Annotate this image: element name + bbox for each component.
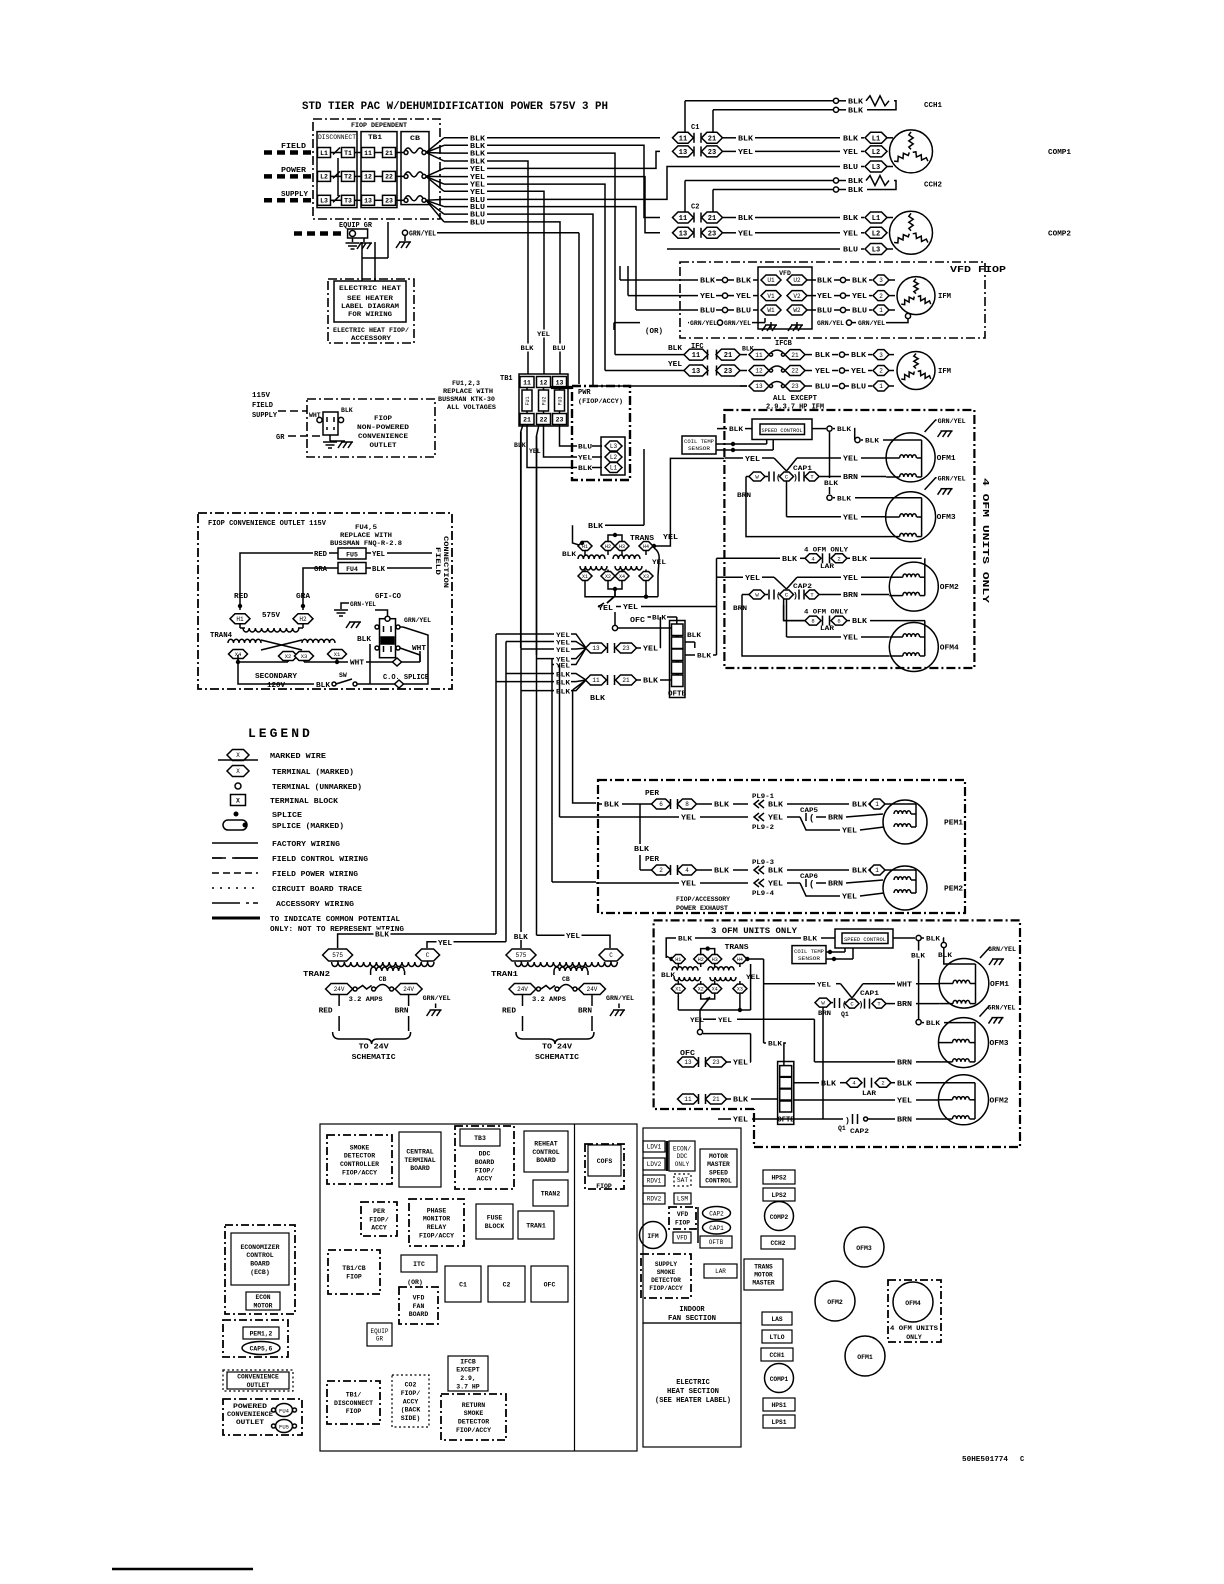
svg-text:CONVENIENCE: CONVENIENCE — [227, 1411, 273, 1418]
svg-text:4 OFM UNITS ONLY: 4 OFM UNITS ONLY — [980, 478, 990, 604]
svg-text:13: 13 — [592, 645, 600, 652]
svg-text:L1: L1 — [320, 150, 328, 157]
svg-text:LDV2: LDV2 — [647, 1161, 662, 1168]
svg-text:FIELD: FIELD — [252, 402, 273, 410]
svg-text:BLK: BLK — [848, 187, 864, 195]
svg-text:H1: H1 — [675, 957, 681, 963]
svg-text:ONLY: ONLY — [906, 1334, 922, 1341]
svg-text:BRN: BRN — [897, 1060, 912, 1068]
svg-text:YEL: YEL — [681, 881, 696, 889]
svg-text:LSM: LSM — [677, 1196, 689, 1203]
svg-text:FIOP: FIOP — [675, 1219, 690, 1226]
svg-text:YEL: YEL — [690, 1017, 704, 1025]
svg-text:CAP1: CAP1 — [709, 1225, 724, 1232]
svg-text:23: 23 — [385, 198, 393, 205]
svg-text:1: 1 — [879, 383, 883, 390]
svg-text:BRN: BRN — [828, 881, 843, 889]
svg-text:POWERED: POWERED — [233, 1403, 267, 1410]
svg-text:H3: H3 — [619, 544, 625, 550]
svg-text:BLK: BLK — [821, 1080, 837, 1088]
svg-text:OFM3: OFM3 — [856, 1245, 872, 1252]
svg-text:YEL: YEL — [733, 1117, 748, 1125]
svg-text:SMOKE: SMOKE — [350, 1144, 370, 1151]
svg-text:GRN/YEL: GRN/YEL — [938, 476, 966, 483]
svg-text:BLK: BLK — [652, 615, 667, 623]
svg-text:3: 3 — [879, 352, 883, 359]
svg-text:575: 575 — [516, 952, 527, 959]
svg-text:MARKED WIRE: MARKED WIRE — [270, 753, 327, 761]
svg-text:CONNECTION: CONNECTION — [442, 536, 449, 589]
svg-text:L2: L2 — [872, 149, 880, 157]
svg-text:YEL: YEL — [700, 293, 715, 301]
svg-text:TERMINAL BLOCK: TERMINAL BLOCK — [270, 798, 339, 806]
svg-text:PER: PER — [645, 856, 660, 864]
svg-text:FIOP DEPENDENT: FIOP DEPENDENT — [351, 122, 407, 129]
svg-text:FIELD POWER WIRING: FIELD POWER WIRING — [272, 871, 359, 879]
svg-text:FAN SECTION: FAN SECTION — [668, 1315, 716, 1323]
svg-text:(SEE HEATER LABEL): (SEE HEATER LABEL) — [655, 1397, 731, 1405]
svg-text:SW: SW — [339, 672, 347, 679]
svg-text:X2: X2 — [605, 574, 611, 580]
svg-text:CCH2: CCH2 — [770, 1240, 785, 1247]
svg-text:FIOP/: FIOP/ — [401, 1390, 421, 1397]
svg-text:GRN/YEL: GRN/YEL — [404, 617, 431, 624]
svg-text:YEL: YEL — [566, 933, 580, 941]
svg-text:FIELD CONTROL WIRING: FIELD CONTROL WIRING — [272, 856, 369, 864]
svg-text:YEL: YEL — [668, 361, 682, 369]
svg-text:1: 1 — [875, 867, 879, 874]
svg-text:DETECTOR: DETECTOR — [651, 1277, 681, 1284]
svg-text:11: 11 — [364, 150, 372, 157]
svg-text:BRN: BRN — [395, 1008, 409, 1016]
svg-text:W2: W2 — [793, 307, 801, 314]
svg-text:2: 2 — [879, 368, 883, 375]
svg-text:POWER EXHAUST: POWER EXHAUST — [676, 905, 728, 912]
svg-text:BLK: BLK — [729, 426, 744, 434]
svg-text:FIELD: FIELD — [434, 547, 441, 576]
svg-text:BLK: BLK — [372, 566, 386, 574]
svg-text:VFD: VFD — [779, 270, 791, 277]
svg-text:FIOP: FIOP — [374, 415, 392, 422]
svg-text:X3: X3 — [643, 574, 649, 580]
svg-text:CCH1: CCH1 — [924, 102, 942, 110]
svg-text:TRAN1: TRAN1 — [526, 1222, 546, 1229]
svg-text:21: 21 — [712, 1096, 720, 1103]
svg-text:23: 23 — [556, 416, 564, 423]
svg-text:GRA: GRA — [314, 566, 328, 574]
svg-text:BLK: BLK — [852, 556, 868, 564]
svg-text:YEL: YEL — [470, 189, 485, 197]
svg-text:V1: V1 — [767, 293, 775, 300]
svg-text:CCH1: CCH1 — [769, 1352, 784, 1359]
svg-text:BLK: BLK — [938, 952, 953, 960]
svg-text:23: 23 — [724, 368, 732, 376]
svg-text:BRN: BRN — [843, 592, 858, 600]
svg-text:YEL: YEL — [817, 293, 832, 301]
svg-text:BLK: BLK — [852, 802, 868, 810]
svg-text:YEL: YEL — [537, 331, 550, 338]
svg-text:BLU: BLU — [470, 212, 485, 220]
svg-text:BLK: BLK — [588, 523, 604, 531]
svg-text:OFC: OFC — [630, 617, 645, 625]
svg-text:120V: 120V — [267, 682, 286, 690]
svg-text:21: 21 — [385, 150, 393, 157]
svg-text:YEL: YEL — [529, 448, 541, 455]
svg-text:X: X — [236, 797, 240, 804]
svg-text:GRN/YEL: GRN/YEL — [690, 320, 717, 327]
svg-text:GR: GR — [376, 1336, 384, 1343]
svg-text:FU4,5: FU4,5 — [355, 524, 377, 532]
svg-text:BLK: BLK — [661, 972, 675, 979]
svg-text:YEL: YEL — [681, 815, 696, 823]
svg-text:BOARD: BOARD — [475, 1159, 495, 1166]
svg-text:X: X — [236, 752, 240, 759]
svg-text:FIOP/ACCY: FIOP/ACCY — [456, 1427, 491, 1434]
svg-text:BLK: BLK — [926, 936, 941, 944]
svg-text:L1: L1 — [872, 215, 880, 223]
svg-text:22: 22 — [540, 416, 548, 423]
svg-text:SPLICE: SPLICE — [272, 812, 303, 820]
svg-text:LEGEND: LEGEND — [248, 726, 313, 741]
svg-text:TERMINAL (MARKED): TERMINAL (MARKED) — [272, 769, 354, 777]
svg-text:BRN: BRN — [897, 1001, 912, 1009]
svg-text:X2: X2 — [285, 653, 292, 660]
svg-text:BLK: BLK — [700, 278, 716, 286]
svg-text:2: 2 — [837, 555, 840, 562]
svg-text:BLK: BLK — [815, 352, 831, 360]
svg-text:PL9-4: PL9-4 — [752, 890, 774, 897]
svg-text:SPLICE (MARKED): SPLICE (MARKED) — [272, 823, 344, 831]
svg-text:11: 11 — [684, 1096, 692, 1103]
svg-text:21: 21 — [622, 677, 630, 684]
svg-text:YEL: YEL — [718, 1017, 732, 1025]
svg-text:(: ( — [809, 880, 814, 890]
svg-text:X3: X3 — [301, 653, 308, 660]
svg-text:BLK: BLK — [852, 278, 868, 286]
svg-text:REPLACE WITH: REPLACE WITH — [340, 532, 392, 540]
svg-text:YEL: YEL — [817, 981, 831, 989]
svg-text:COIL TEMP: COIL TEMP — [794, 949, 824, 955]
svg-text:BUSSMAN KTK-30: BUSSMAN KTK-30 — [438, 396, 495, 403]
svg-text:MOTOR: MOTOR — [254, 1302, 273, 1309]
svg-text:24V: 24V — [587, 986, 598, 993]
svg-text:TO 24V: TO 24V — [359, 1044, 390, 1052]
svg-text:BUSSMAN FNQ-R-2.8: BUSSMAN FNQ-R-2.8 — [330, 540, 402, 548]
svg-text:BLK: BLK — [316, 682, 331, 690]
svg-text:ECON: ECON — [255, 1294, 270, 1301]
svg-text:BLK: BLK — [843, 215, 859, 223]
svg-text:BLK: BLK — [556, 688, 570, 695]
svg-text:CB: CB — [562, 976, 570, 983]
svg-text:EQUIP: EQUIP — [370, 1328, 388, 1335]
svg-text:YEL: YEL — [842, 828, 857, 836]
svg-text:FACTORY WIRING: FACTORY WIRING — [272, 841, 341, 849]
svg-text:RED: RED — [234, 593, 248, 601]
svg-text:TRANS: TRANS — [630, 535, 654, 543]
svg-text:C: C — [609, 952, 613, 959]
svg-text:C2: C2 — [503, 1281, 511, 1288]
svg-text:YEL: YEL — [556, 632, 570, 639]
svg-text:): ) — [793, 592, 798, 601]
svg-text:NON-POWERED: NON-POWERED — [357, 424, 409, 431]
svg-text:YEL: YEL — [598, 605, 613, 613]
svg-text:4 OFM UNITS: 4 OFM UNITS — [890, 1325, 938, 1332]
svg-text:PWR: PWR — [578, 389, 591, 397]
svg-text:H2: H2 — [698, 957, 704, 963]
svg-text:SAT: SAT — [677, 1177, 689, 1184]
svg-text:(BACK: (BACK — [401, 1407, 421, 1414]
svg-text:YEL: YEL — [556, 639, 570, 646]
svg-text:BLK: BLK — [843, 135, 859, 143]
svg-text:SECONDARY: SECONDARY — [255, 673, 298, 681]
svg-text:IFM: IFM — [938, 293, 951, 301]
svg-text:L2: L2 — [610, 454, 618, 461]
svg-text:3.2 AMPS: 3.2 AMPS — [532, 996, 566, 1003]
svg-text:8: 8 — [811, 618, 814, 625]
svg-text:MOTOR: MOTOR — [709, 1153, 728, 1160]
svg-text:BLU: BLU — [578, 444, 592, 451]
svg-text:13: 13 — [755, 383, 763, 390]
svg-text:WHT: WHT — [350, 660, 364, 668]
svg-text:YEL: YEL — [768, 881, 783, 889]
svg-text:YEL: YEL — [843, 230, 858, 238]
svg-text:RDV1: RDV1 — [647, 1178, 662, 1185]
svg-text:REPLACE WITH: REPLACE WITH — [443, 388, 493, 395]
svg-text:50HE501774: 50HE501774 — [962, 1456, 1008, 1464]
svg-text:6: 6 — [837, 618, 840, 625]
svg-text:OFM2: OFM2 — [990, 1097, 1009, 1105]
svg-text:X4: X4 — [712, 986, 718, 992]
svg-text:OFTB: OFTB — [668, 691, 687, 699]
svg-text:FIOP/: FIOP/ — [475, 1167, 495, 1174]
svg-text:EXCEPT: EXCEPT — [456, 1367, 480, 1374]
svg-text:CONTROLLER: CONTROLLER — [340, 1161, 379, 1168]
svg-text:DISCONNECT: DISCONNECT — [318, 134, 356, 141]
svg-text:BLU: BLU — [852, 308, 867, 316]
svg-text:YEL: YEL — [643, 646, 658, 654]
svg-text:GRN/YEL: GRN/YEL — [988, 1005, 1016, 1012]
svg-text:BRN: BRN — [897, 1117, 912, 1125]
svg-text:GRN/YEL: GRN/YEL — [817, 320, 844, 327]
svg-text:TB1: TB1 — [500, 375, 513, 383]
svg-text:11: 11 — [692, 352, 700, 360]
svg-text:Q1: Q1 — [838, 1125, 846, 1132]
svg-text:ACCESSORY WIRING: ACCESSORY WIRING — [276, 901, 355, 909]
svg-text:W1: W1 — [767, 307, 775, 314]
svg-text:CENTRAL: CENTRAL — [406, 1149, 433, 1156]
svg-text:11: 11 — [679, 135, 687, 143]
svg-text:(OR): (OR) — [407, 1279, 423, 1286]
svg-text:YEL: YEL — [897, 1097, 912, 1105]
svg-text:BLK: BLK — [768, 868, 784, 876]
svg-text:FU3: FU3 — [558, 396, 564, 405]
svg-text:OUTLET: OUTLET — [236, 1419, 264, 1426]
svg-text:FU4: FU4 — [279, 1408, 290, 1415]
svg-text:2: 2 — [659, 867, 663, 874]
svg-text:13: 13 — [692, 368, 700, 376]
svg-text:GRN/YEL: GRN/YEL — [724, 320, 751, 327]
svg-text:11: 11 — [679, 215, 687, 223]
svg-text:GRN/YEL: GRN/YEL — [858, 320, 885, 327]
svg-text:FIELD: FIELD — [281, 143, 306, 151]
svg-text:4: 4 — [685, 867, 689, 874]
svg-text:RED: RED — [319, 1008, 333, 1016]
svg-text:BLK: BLK — [714, 802, 730, 810]
svg-text:GRN/YEL: GRN/YEL — [409, 230, 436, 238]
svg-text:C.O. SPLICE: C.O. SPLICE — [383, 674, 429, 682]
svg-text:YEL: YEL — [768, 815, 783, 823]
svg-text:GRN/YEL: GRN/YEL — [606, 995, 634, 1002]
svg-text:TO INDICATE COMMON POTENTIAL: TO INDICATE COMMON POTENTIAL — [270, 916, 401, 924]
svg-text:X: X — [236, 768, 240, 775]
svg-text:FAN: FAN — [413, 1303, 425, 1310]
svg-text:FUSE: FUSE — [487, 1215, 503, 1222]
svg-text:COMP1: COMP1 — [1048, 149, 1071, 157]
svg-text:CAP2: CAP2 — [850, 1128, 869, 1136]
svg-text:): ) — [793, 474, 798, 483]
svg-text:H4: H4 — [643, 544, 649, 550]
svg-text:IFM: IFM — [647, 1233, 659, 1240]
svg-text:23: 23 — [712, 1059, 720, 1066]
svg-text:24V: 24V — [517, 986, 528, 993]
svg-text:BLK: BLK — [865, 438, 880, 446]
svg-text:12: 12 — [540, 379, 548, 386]
svg-text:FU5: FU5 — [346, 552, 358, 559]
svg-text:1: 1 — [879, 307, 883, 314]
svg-text:C1: C1 — [691, 124, 699, 132]
svg-text:YEL: YEL — [851, 368, 866, 376]
svg-text:RELAY: RELAY — [427, 1224, 447, 1231]
svg-text:CAP2: CAP2 — [709, 1211, 724, 1218]
svg-text:8: 8 — [685, 801, 689, 808]
svg-text:23: 23 — [708, 230, 716, 238]
svg-text:IFCB: IFCB — [775, 340, 793, 348]
svg-text:SEE HEATER: SEE HEATER — [347, 295, 393, 302]
svg-text:TERMINAL (UNMARKED): TERMINAL (UNMARKED) — [272, 784, 362, 792]
svg-text:OUTLET: OUTLET — [370, 442, 397, 449]
svg-text:21: 21 — [523, 416, 531, 423]
svg-text:TRAN2: TRAN2 — [303, 971, 331, 979]
svg-text:INDOOR: INDOOR — [679, 1306, 705, 1314]
svg-text:L3: L3 — [610, 443, 618, 450]
svg-text:BLK: BLK — [837, 495, 852, 503]
svg-text:BRN: BRN — [843, 474, 858, 482]
svg-text:OFM3: OFM3 — [937, 514, 956, 522]
svg-text:OFM4: OFM4 — [940, 645, 959, 653]
svg-text:YEL: YEL — [372, 551, 385, 559]
svg-text:GRN-YEL: GRN-YEL — [350, 601, 376, 608]
svg-text:22: 22 — [385, 174, 393, 181]
svg-text:SPEED: SPEED — [709, 1169, 728, 1176]
svg-text:(FIOP/ACCY): (FIOP/ACCY) — [578, 398, 623, 405]
svg-text:1: 1 — [875, 801, 879, 808]
svg-text:PHASE: PHASE — [427, 1207, 447, 1214]
svg-text:IFCB: IFCB — [460, 1358, 476, 1365]
svg-text:V2: V2 — [793, 293, 801, 300]
svg-text:BLK: BLK — [470, 143, 486, 151]
svg-text:CAP1: CAP1 — [860, 990, 879, 998]
svg-text:LAR: LAR — [820, 563, 835, 571]
svg-text:BOARD: BOARD — [536, 1157, 556, 1164]
svg-text:SMOKE: SMOKE — [657, 1269, 676, 1276]
svg-text:T3: T3 — [344, 198, 352, 205]
svg-text:PER: PER — [645, 790, 660, 798]
svg-text:BLK: BLK — [848, 98, 864, 106]
svg-text:C: C — [426, 952, 430, 959]
svg-text:LPS1: LPS1 — [771, 1419, 786, 1426]
svg-text:2: 2 — [879, 293, 883, 300]
svg-text:CONVENIENCE: CONVENIENCE — [358, 433, 408, 440]
svg-text:CONVENIENCE: CONVENIENCE — [237, 1374, 279, 1381]
svg-text:GR: GR — [276, 434, 285, 442]
svg-text:X2: X2 — [698, 986, 704, 992]
svg-text:BOARD: BOARD — [409, 1311, 429, 1318]
svg-text:WHT: WHT — [412, 645, 426, 653]
svg-text:POWER: POWER — [281, 167, 307, 175]
svg-text:T2: T2 — [344, 174, 352, 181]
svg-text:LAR: LAR — [715, 1268, 726, 1275]
svg-text:OFC: OFC — [544, 1281, 556, 1288]
svg-text:ACCY: ACCY — [403, 1398, 419, 1405]
svg-text:3: 3 — [879, 277, 883, 284]
svg-text:FIOP: FIOP — [346, 1408, 362, 1415]
svg-text:DETECTOR: DETECTOR — [344, 1153, 375, 1160]
svg-text:23: 23 — [791, 383, 799, 390]
svg-text:BLK: BLK — [556, 679, 570, 686]
svg-text:YEL: YEL — [843, 149, 858, 157]
svg-text:VFD FIOP: VFD FIOP — [950, 265, 1007, 275]
svg-text:X1: X1 — [582, 574, 588, 580]
svg-text:BLU: BLU — [700, 308, 715, 316]
svg-text:CB: CB — [410, 135, 420, 142]
svg-text:FIOP CONVENIENCE OUTLET 115V: FIOP CONVENIENCE OUTLET 115V — [208, 520, 326, 528]
svg-text:VFD: VFD — [677, 1235, 688, 1242]
svg-text:OFM1: OFM1 — [990, 981, 1009, 989]
svg-text:BLU: BLU — [736, 308, 751, 316]
svg-text:ELECTRIC HEAT FIOP/: ELECTRIC HEAT FIOP/ — [333, 327, 409, 334]
svg-text:LDV1: LDV1 — [647, 1144, 662, 1151]
svg-text:SCHEMATIC: SCHEMATIC — [352, 1054, 397, 1062]
svg-text:BLK: BLK — [643, 678, 659, 686]
svg-text:BLK: BLK — [521, 345, 534, 352]
svg-text:TRAN1: TRAN1 — [491, 971, 519, 979]
svg-text:HPS1: HPS1 — [771, 1402, 786, 1409]
svg-text:REHEAT: REHEAT — [534, 1141, 558, 1148]
svg-text:CIRCUIT BOARD TRACE: CIRCUIT BOARD TRACE — [272, 886, 363, 894]
svg-text:BLU: BLU — [815, 384, 830, 392]
svg-text:ALL EXCEPT: ALL EXCEPT — [773, 395, 817, 403]
svg-text:BLU: BLU — [817, 308, 832, 316]
svg-text:FOR WIRING: FOR WIRING — [348, 311, 392, 318]
svg-text:13: 13 — [684, 1059, 692, 1066]
svg-text:FIOP: FIOP — [346, 1273, 362, 1280]
svg-text:TB1/CB: TB1/CB — [342, 1265, 366, 1272]
svg-text:3 OFM UNITS ONLY: 3 OFM UNITS ONLY — [711, 926, 798, 936]
svg-text:TRANS: TRANS — [754, 1264, 773, 1271]
svg-text:BLK: BLK — [733, 1097, 749, 1105]
svg-text:SIDE): SIDE) — [401, 1415, 421, 1422]
svg-text:ACCY: ACCY — [371, 1225, 387, 1232]
svg-text:CONTROL: CONTROL — [705, 1177, 732, 1184]
svg-text:YEL: YEL — [852, 293, 867, 301]
svg-text:BRN: BRN — [828, 815, 843, 823]
svg-text:ECON/: ECON/ — [673, 1145, 691, 1152]
svg-text:U2: U2 — [793, 277, 801, 284]
svg-text:RED: RED — [502, 1008, 516, 1016]
svg-text:): ) — [859, 1001, 864, 1010]
svg-text:GFI-CO: GFI-CO — [375, 593, 401, 601]
svg-text:BLK: BLK — [926, 1020, 941, 1028]
